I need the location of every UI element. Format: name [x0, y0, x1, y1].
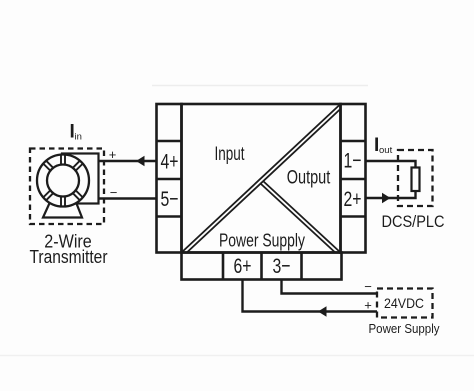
svg-text:DCS/PLC: DCS/PLC [382, 212, 445, 231]
svg-text:Power Supply: Power Supply [219, 231, 305, 251]
svg-text:6+: 6+ [234, 254, 252, 278]
faint artifact line top [152, 85, 368, 87]
svg-text:5−: 5− [161, 187, 179, 211]
arrowhead on 4+ wire [136, 156, 145, 166]
svg-text:−: − [364, 279, 372, 294]
wire transmitter + to terminal 4 [99, 160, 157, 162]
svg-text:Power Supply: Power Supply [369, 322, 441, 336]
svg-text:Transmitter: Transmitter [30, 247, 108, 267]
wire terminal 2 to resistor [366, 191, 416, 198]
faint artifact line bottom [0, 355, 474, 357]
svg-text:1−: 1− [344, 149, 362, 173]
arrowhead on 2+ wire [382, 193, 391, 203]
diagonal A (double line bottom-left to top-right) [182, 104, 341, 253]
transmitter ring [37, 155, 89, 207]
svg-text:−: − [110, 185, 118, 200]
wire terminal 3 down and right [282, 280, 378, 294]
transmitter body rectangle [62, 154, 99, 204]
svg-text:24VDC: 24VDC [384, 295, 424, 311]
main box [182, 104, 341, 253]
label I_in [70, 122, 82, 143]
svg-text:3−: 3− [273, 254, 291, 278]
resistor in DCS/PLC [412, 168, 420, 192]
wire terminal 6 down and right [243, 280, 378, 312]
svg-text:in: in [75, 132, 82, 143]
svg-text:out: out [379, 145, 393, 156]
wire terminal 1 to resistor [366, 161, 416, 168]
svg-text:+: + [364, 298, 372, 313]
ring tick marks [43, 154, 84, 208]
diagonal B (double line center to bottom-right) [261, 181, 341, 252]
svg-text:Input: Input [215, 144, 246, 165]
left terminal column [157, 104, 182, 253]
svg-text:4+: 4+ [161, 150, 179, 174]
label I_out [374, 135, 393, 156]
transmitter dashed box [30, 149, 104, 225]
svg-text:2+: 2+ [344, 187, 362, 211]
24VDC dashed box [377, 289, 433, 318]
transmitter stand [43, 201, 82, 218]
svg-text:+: + [109, 147, 117, 162]
right terminal column [341, 104, 366, 253]
svg-text:Output: Output [287, 168, 331, 189]
bottom terminal row [182, 253, 342, 280]
wire transmitter - to terminal 5 [99, 197, 157, 199]
ring inner circle [47, 165, 79, 197]
DCS/PLC dashed box [398, 150, 433, 206]
arrowhead on 6+ wire [318, 306, 327, 316]
